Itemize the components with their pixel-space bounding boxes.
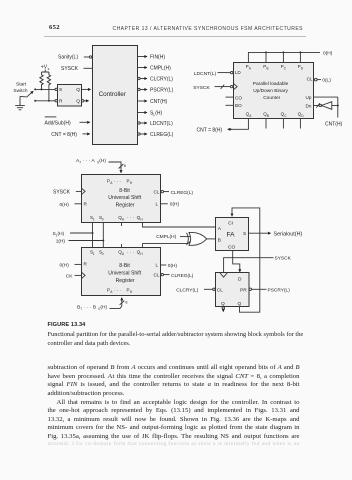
wire latch Q to controller xyxy=(82,88,91,90)
wire QA to CNT=8(H) xyxy=(197,119,249,133)
svg-text:CNT(H): CNT(H) xyxy=(150,99,168,105)
node 0(H) upper R xyxy=(60,202,82,208)
wire counter preset rail 0(H) xyxy=(248,51,332,63)
svg-text:CMPL(H): CMPL(H) xyxy=(150,66,171,72)
node CLREG(L) lower xyxy=(161,273,194,279)
svg-text:FA: FA xyxy=(227,232,236,239)
svg-text:· · ·: · · · xyxy=(127,215,134,220)
svg-text:B: B xyxy=(267,114,269,118)
wire upper QH to adder A xyxy=(143,223,216,228)
svg-text:1: 1 xyxy=(93,217,95,221)
node CLREG(L) upper xyxy=(161,190,193,196)
node Serialout(H) xyxy=(248,231,302,237)
svg-text:0: 0 xyxy=(102,252,104,256)
svg-text:R: R xyxy=(59,99,63,105)
svg-text:0(L): 0(L) xyxy=(322,78,331,84)
node 0(H) lower R xyxy=(60,262,82,268)
svg-text:Universal Shift: Universal Shift xyxy=(108,195,141,201)
svg-text:8-Bit: 8-Bit xyxy=(119,188,130,194)
svg-text:FIN(H): FIN(H) xyxy=(150,55,165,61)
output CLREG(L) xyxy=(138,132,174,138)
svg-text:Sanity(L): Sanity(L) xyxy=(58,55,78,61)
wire lower QH to xor xyxy=(143,241,191,247)
svg-text:Dn: Dn xyxy=(306,103,312,108)
svg-text:0(H): 0(H) xyxy=(60,262,70,268)
svg-text:CNT = 8(H): CNT = 8(H) xyxy=(197,127,223,133)
svg-text:Q: Q xyxy=(76,87,80,93)
svg-text:CI: CI xyxy=(228,221,233,227)
svg-text:Up: Up xyxy=(306,95,312,100)
wire CO stub xyxy=(226,96,234,98)
wire upper QA stub xyxy=(121,223,123,227)
svg-text:8: 8 xyxy=(124,164,126,168)
wire Up row xyxy=(314,96,338,98)
wire S row xyxy=(35,88,55,90)
svg-text:8-Bit: 8-Bit xyxy=(119,263,130,269)
svg-text:L: L xyxy=(156,263,159,268)
node SYSCK counter clock xyxy=(193,83,237,91)
output S1(H) xyxy=(138,111,163,117)
svg-text:Up/Down Binary: Up/Down Binary xyxy=(253,88,288,94)
node LDCNT(L) xyxy=(194,71,233,77)
svg-text:s: s xyxy=(48,67,50,71)
node S1(H) xyxy=(53,223,94,248)
node R1-S junction xyxy=(41,88,43,90)
node 1(H) xyxy=(56,223,105,248)
wire QC stub xyxy=(282,119,284,129)
svg-text:· · · A: · · · A xyxy=(83,158,96,164)
output CMPL(H) xyxy=(138,66,172,72)
svg-text:CO: CO xyxy=(235,95,242,100)
svg-text:· · ·: · · · xyxy=(114,179,121,184)
svg-text:S: S xyxy=(243,231,246,237)
svg-text:BO: BO xyxy=(235,103,242,108)
output FIN(H) xyxy=(138,55,166,61)
svg-text:B: B xyxy=(218,238,221,244)
svg-text:· · ·: · · · xyxy=(114,288,121,293)
svg-text:Counter: Counter xyxy=(263,95,280,101)
node PSCRY(L) ff preset xyxy=(249,287,290,293)
node A bus A7..A0(H) xyxy=(76,158,126,173)
wire adder CO to ff D xyxy=(233,251,240,272)
svg-text:(H): (H) xyxy=(99,158,106,164)
output CLCRY(L) xyxy=(138,77,174,83)
node CLCRY(L) ff clear xyxy=(176,287,215,293)
node 0(H) upper L xyxy=(161,202,180,208)
svg-text:Switch: Switch xyxy=(13,88,27,94)
node Add/Sub(H) xyxy=(45,117,90,127)
debounce latch U1 xyxy=(55,85,84,107)
svg-text:SYSCK: SYSCK xyxy=(53,190,71,196)
svg-text:Add/Sub(H): Add/Sub(H) xyxy=(45,120,71,126)
svg-text:SYSCK: SYSCK xyxy=(275,256,292,262)
node SYSCK ff clock xyxy=(224,256,292,273)
node SYSCK upper register clock xyxy=(53,188,85,195)
svg-text:Q: Q xyxy=(238,301,242,307)
node 0(L) counter clear xyxy=(315,78,332,84)
svg-text:D: D xyxy=(238,277,242,283)
svg-text:CL: CL xyxy=(307,77,313,82)
svg-text:CL: CL xyxy=(154,189,160,194)
svg-text:Q: Q xyxy=(221,301,225,307)
svg-text:Parallel loadable: Parallel loadable xyxy=(253,81,289,87)
svg-text:Controller: Controller xyxy=(99,91,126,98)
node 0(H) lower L xyxy=(161,263,178,269)
svg-text:1(H): 1(H) xyxy=(56,239,66,245)
svg-text:CL: CL xyxy=(217,287,223,293)
node B bus B7..B0(H) xyxy=(77,298,127,311)
svg-text:CK: CK xyxy=(66,273,73,279)
svg-text:SYSCK: SYSCK xyxy=(193,85,210,91)
svg-text:(H): (H) xyxy=(100,304,107,310)
svg-text:S: S xyxy=(59,87,62,93)
svg-text:0(H): 0(H) xyxy=(170,202,180,208)
node CNT = 8(H) input xyxy=(51,132,90,138)
svg-text:0(H): 0(H) xyxy=(168,263,178,269)
svg-text:LDCNT(L): LDCNT(L) xyxy=(194,71,217,77)
svg-text:(H): (H) xyxy=(58,231,65,237)
svg-text:Start: Start xyxy=(16,82,27,88)
wire ff Q feedback loop to CI xyxy=(232,208,260,312)
svg-text:(H): (H) xyxy=(155,111,162,117)
output LDCNT(L) xyxy=(138,121,173,127)
power +V xyxy=(41,64,50,72)
svg-text:· · ·: · · · xyxy=(127,249,134,254)
node Sanity(L) xyxy=(58,55,92,61)
svg-text:PSCRY(L): PSCRY(L) xyxy=(150,88,174,94)
svg-text:Register: Register xyxy=(116,203,135,209)
svg-text:CLREG(L): CLREG(L) xyxy=(150,132,174,138)
svg-text:CO: CO xyxy=(228,245,235,251)
svg-text:· · · B: · · · B xyxy=(84,304,96,310)
register U5 upper 8-bit universal shift register xyxy=(82,175,161,223)
controller U2 xyxy=(93,46,138,145)
counter U3 xyxy=(234,63,314,119)
svg-text:CLREG(L): CLREG(L) xyxy=(171,273,194,279)
output PSCRY(L) xyxy=(138,88,174,94)
svg-text:CMPL(H): CMPL(H) xyxy=(156,234,176,240)
svg-text:CL: CL xyxy=(154,272,160,277)
output CNT(H) xyxy=(138,99,168,105)
svg-text:0: 0 xyxy=(102,217,104,221)
svg-text:CLCRY(L): CLCRY(L) xyxy=(150,77,173,83)
svg-text:B: B xyxy=(266,67,268,71)
svg-text:CLCRY(L): CLCRY(L) xyxy=(176,287,198,293)
node SYSCK controller clock xyxy=(61,65,96,72)
wire R row xyxy=(35,100,55,102)
svg-text:Universal Shift: Universal Shift xyxy=(108,270,141,276)
svg-text:Q: Q xyxy=(76,99,80,105)
wire QB stub xyxy=(265,119,267,129)
wire QD stub xyxy=(299,119,301,129)
wire lower QA stub xyxy=(121,244,123,248)
svg-text:CNT = 8(H): CNT = 8(H) xyxy=(51,132,77,138)
node CK lower clock xyxy=(66,272,85,279)
wire ff Qbar stub xyxy=(222,307,224,312)
svg-text:Serialout(H): Serialout(H) xyxy=(274,231,303,237)
wire Dn row xyxy=(314,105,319,107)
svg-text:CLREG(L): CLREG(L) xyxy=(171,190,194,196)
svg-text:Register: Register xyxy=(116,278,135,284)
svg-text:8: 8 xyxy=(125,301,127,305)
wire latch Qbar to controller xyxy=(84,100,89,102)
node CNT(H) xyxy=(325,97,343,128)
wire BO stub xyxy=(226,104,234,106)
svg-text:7: 7 xyxy=(79,161,81,165)
flip-flop U9 xyxy=(216,273,250,308)
svg-text:SYSCK: SYSCK xyxy=(61,66,79,72)
svg-text:CNT(H): CNT(H) xyxy=(325,122,343,128)
svg-text:LDCNT(L): LDCNT(L) xyxy=(150,121,173,127)
node R2-R junction xyxy=(48,100,50,102)
svg-text:PR: PR xyxy=(240,287,247,293)
svg-text:1: 1 xyxy=(93,252,95,256)
resistor R1 xyxy=(40,72,43,89)
xor gate U7 xyxy=(187,232,216,245)
inverter U4 xyxy=(316,102,338,110)
ground xyxy=(15,96,25,109)
svg-text:0(H): 0(H) xyxy=(323,51,333,57)
svg-text:L: L xyxy=(156,202,159,207)
svg-text:LD: LD xyxy=(235,70,242,75)
svg-text:PSCRY(L): PSCRY(L) xyxy=(268,287,291,293)
start switch SW1 xyxy=(13,82,36,102)
resistor R2 xyxy=(47,72,50,101)
svg-text:7: 7 xyxy=(80,307,82,311)
svg-text:0(H): 0(H) xyxy=(60,202,70,208)
node CMPL(H) xyxy=(156,234,190,240)
register U6 lower 8-bit universal shift register xyxy=(82,248,161,296)
full adder U8 xyxy=(216,218,249,251)
